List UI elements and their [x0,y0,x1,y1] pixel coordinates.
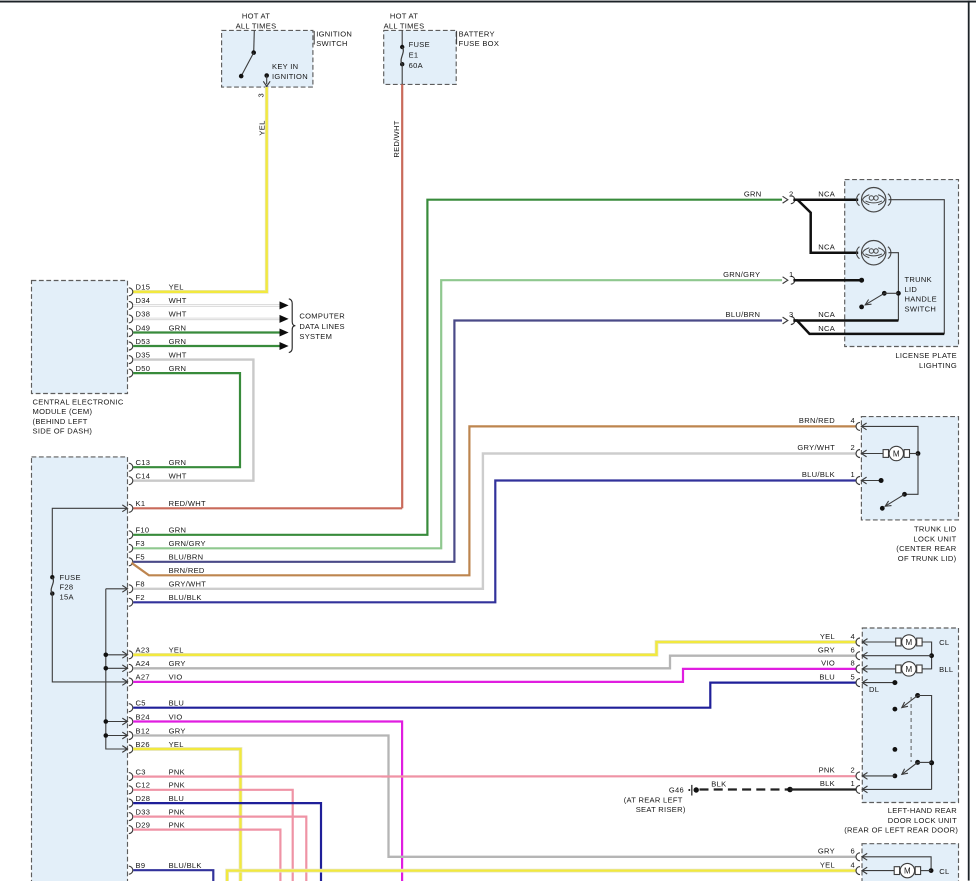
svg-text:K1: K1 [136,499,146,508]
svg-text:RED/WHT: RED/WHT [169,499,206,508]
svg-text:BRN/RED: BRN/RED [169,566,205,575]
svg-text:M: M [893,449,900,458]
license internal pin3 wires [793,319,898,322]
svg-text:VIO: VIO [169,712,183,721]
CEM pin C5 [129,704,133,712]
svg-text:SWITCH: SWITCH [905,304,937,313]
svg-text:(BEHIND LEFT: (BEHIND LEFT [33,417,88,426]
fuse E1 60A [401,30,403,47]
svg-text:IGNITION: IGNITION [272,72,308,81]
door pin1 internal wire [862,788,931,790]
CEM pin C12 [129,786,133,794]
wire D38 WHT data line [133,318,280,320]
svg-text:C5: C5 [136,699,146,708]
lamp1 return wire [889,200,945,334]
svg-text:A24: A24 [136,659,150,668]
svg-text:YEL: YEL [169,283,184,292]
CEM pin B26 [129,745,133,753]
RH door pin 4 connector [856,867,860,875]
svg-text:B12: B12 [136,726,150,735]
svg-text:GRN: GRN [169,458,187,467]
ignition switch box [222,30,313,87]
wire C3 PNK to door pin2 [133,775,856,778]
CEM pin D50 [129,369,133,377]
CEM pin D35 [129,356,133,364]
svg-text:BATTERY: BATTERY [459,29,495,38]
svg-text:BLU/BLK: BLU/BLK [802,470,835,479]
svg-text:1: 1 [789,270,794,279]
svg-text:BLU: BLU [169,699,185,708]
svg-text:IGNITION: IGNITION [316,29,352,38]
wire D29 PNK down offpage [133,830,280,881]
CEM pin D34 [129,301,133,309]
RH door pin 6 connector [856,853,860,861]
lamp2 return wire [889,253,899,321]
svg-text:D35: D35 [136,350,151,359]
svg-text:15A: 15A [60,592,75,601]
svg-text:F3: F3 [136,539,145,548]
license pin 2 connector [783,196,788,203]
svg-text:PNK: PNK [169,820,185,829]
CEM pin F8 [129,585,133,593]
mechanical link (dashed) [910,697,912,762]
wire B12 GRY to RH door pin6 [133,736,856,857]
svg-text:BLU/BRN: BLU/BRN [169,553,204,562]
svg-text:LID: LID [905,285,918,294]
svg-text:GRY/WHT: GRY/WHT [169,580,207,589]
svg-text:GRY: GRY [818,847,835,856]
trunk pin 4 connector [856,422,860,430]
svg-text:FUSE: FUSE [60,573,81,582]
CEM pin F10 [129,531,133,539]
right-hand rear door lock unit box (cut off) [862,844,959,881]
wire F8 GRY/WHT to trunk pin2 [133,454,856,589]
CEM pin B9 [129,866,133,874]
door pin 5 connector [856,679,860,687]
license internal black wiring pin2 [793,198,858,201]
door motor CL [862,641,895,643]
trunk lid lock unit box [861,417,958,520]
svg-text:SIDE OF DASH): SIDE OF DASH) [33,427,93,436]
svg-text:HOT AT: HOT AT [242,12,270,21]
svg-text:VIO: VIO [169,673,183,682]
svg-text:LICENSE PLATE: LICENSE PLATE [895,351,957,360]
svg-text:GRN: GRN [744,189,762,198]
CEM internal wire fuse to A27 [52,594,127,682]
wire C12 PNK down offpage [133,790,293,881]
svg-text:PNK: PNK [169,807,185,816]
svg-text:2: 2 [789,189,794,198]
left-hand rear door lock unit box [862,628,958,803]
CEM pin D15 [129,288,133,296]
svg-text:GRY/WHT: GRY/WHT [797,443,835,452]
svg-text:A27: A27 [136,673,150,682]
svg-text:DATA LINES: DATA LINES [299,322,345,331]
svg-text:SEAT RISER): SEAT RISER) [636,805,686,814]
trunk internal pin4 wire [861,426,918,453]
svg-text:MODULE (CEM): MODULE (CEM) [33,407,93,416]
wire F5 BLU/BRN to license pin3 [133,321,782,562]
data line arrow D53 [280,342,289,350]
svg-text:1: 1 [851,470,856,479]
CEM pin B24 [129,718,133,726]
svg-text:3: 3 [789,310,794,319]
page frame right border [968,1,970,881]
middle contact dot [893,747,898,752]
wire BRN/RED to trunk pin4 [132,426,857,575]
svg-text:GRN/GRY: GRN/GRY [169,539,206,548]
svg-text:C14: C14 [136,472,151,481]
svg-text:BLU: BLU [169,794,185,803]
svg-text:PNK: PNK [169,781,185,790]
data line arrow D34 [280,301,289,309]
svg-text:M: M [904,867,911,876]
battery fuse box [384,30,457,84]
svg-text:VIO: VIO [821,659,835,668]
CEM internal bus F8/A23/A24/B24/B12/B26 [106,588,128,590]
CEM pin F3 [129,544,133,552]
svg-text:D29: D29 [136,820,151,829]
svg-text:TRUNK: TRUNK [905,275,933,284]
license pin 3 connector [783,317,788,324]
svg-text:CL: CL [939,867,949,876]
svg-text:M: M [906,665,913,674]
svg-text:KEY IN: KEY IN [272,62,298,71]
svg-text:BLK: BLK [820,779,835,788]
svg-text:OF TRUNK LID): OF TRUNK LID) [898,554,957,563]
svg-text:ALL TIMES: ALL TIMES [384,21,425,30]
door pin 2 connector [856,772,860,780]
computer data lines brace [289,299,296,353]
svg-text:SYSTEM: SYSTEM [299,332,332,341]
wire YEL ignition to D15 [133,87,267,292]
door lock switch lower [915,760,920,765]
door pin 1 connector [856,785,860,793]
RH door motor CL [862,870,894,872]
wire B24 VIO down offpage [133,722,402,881]
svg-text:CL: CL [939,638,949,647]
svg-text:SWITCH: SWITCH [316,39,348,48]
battery fuse box label leader [456,31,458,45]
svg-text:E1: E1 [409,50,419,59]
license pin 1 connector [783,277,788,284]
svg-text:DL: DL [869,685,879,694]
data line arrow D38 [280,315,289,323]
CEM pin D33 [129,813,133,821]
svg-text:GRN: GRN [169,323,187,332]
svg-text:D49: D49 [136,323,151,332]
trunk internal switch [905,454,919,495]
wire RED/WHT battery to K1 [401,84,403,508]
wire F10 GRN to license pin2 [133,200,782,535]
CEM pin D38 [129,315,133,323]
svg-text:WHT: WHT [169,472,187,481]
trunk lid handle switch [882,291,887,296]
svg-text:D50: D50 [136,364,151,373]
svg-text:G46: G46 [669,786,684,795]
svg-text:GRN: GRN [169,526,187,535]
svg-text:BRN/RED: BRN/RED [799,416,835,425]
CEM pin C13 [129,463,133,471]
central electronic module (CEM) box upper [32,281,128,394]
svg-text:6: 6 [851,646,856,655]
CEM pin F5 [129,558,133,566]
svg-text:LIGHTING: LIGHTING [919,361,957,370]
wire D49 GRN data line [133,331,280,333]
CEM pin C3 [129,773,133,781]
wire D50 GRN loop to C13 [133,373,240,467]
license internal pin1 wire [793,279,861,282]
svg-text:GRY: GRY [169,726,186,735]
svg-text:(REAR OF LEFT REAR DOOR): (REAR OF LEFT REAR DOOR) [844,826,958,835]
svg-text:4: 4 [851,632,856,641]
CEM pin B12 [129,732,133,740]
svg-text:5: 5 [851,672,856,681]
CEM pin D28 [129,799,133,807]
svg-text:PNK: PNK [169,767,185,776]
svg-text:CENTRAL ELECTRONIC: CENTRAL ELECTRONIC [33,398,124,407]
CEM pin D49 [129,329,133,337]
CEM pin F2 [129,598,133,606]
svg-text:RED/WHT: RED/WHT [392,120,401,157]
svg-text:HOT AT: HOT AT [390,12,418,21]
svg-text:F28: F28 [60,583,74,592]
CEM pin D29 [129,826,133,834]
svg-text:FUSE BOX: FUSE BOX [459,39,500,48]
svg-text:C12: C12 [136,781,151,790]
svg-text:BLL: BLL [939,665,953,674]
svg-text:D34: D34 [136,296,151,305]
svg-text:8: 8 [851,659,856,668]
svg-text:ALL TIMES: ALL TIMES [236,21,277,30]
RH door internal pin6 wire [862,857,931,871]
svg-text:NCA: NCA [818,310,836,319]
svg-text:COMPUTER: COMPUTER [299,312,345,321]
license plate lighting box [845,180,959,347]
svg-text:D28: D28 [136,794,151,803]
door lock switch upper [915,693,920,698]
wire B9 BLU/BLK down offpage [133,870,213,881]
data line arrow D49 [280,329,289,337]
svg-text:F2: F2 [136,593,145,602]
wire C5 BLU to door pin5 [133,683,856,708]
svg-text:YEL: YEL [820,632,835,641]
svg-text:6: 6 [851,847,856,856]
wire F2 BLU/BLK to trunk pin1 [133,481,856,603]
wire YEL RH door pin4 offpage [227,871,857,881]
page frame top border [0,1,976,3]
BLK ground wire (dashed) [700,788,791,790]
door pin 4 connector [856,638,860,646]
ignition switch label leader [313,31,315,45]
svg-text:BLK: BLK [711,780,726,789]
svg-text:GRY: GRY [169,659,186,668]
svg-text:2: 2 [851,443,856,452]
svg-text:D33: D33 [136,807,151,816]
wire A24 GRY to door pin6 [133,656,856,669]
svg-text:B24: B24 [136,712,150,721]
svg-text:C3: C3 [136,767,146,776]
wire F3 GRN/GRY to license pin1 [133,280,782,548]
wire D34 WHT data line [133,304,280,306]
svg-text:WHT: WHT [169,350,187,359]
wire A27 VIO to door pin8 [133,669,856,682]
svg-text:3: 3 [257,93,266,98]
svg-text:YEL: YEL [257,120,266,135]
wire D33 PNK down offpage [133,817,306,881]
svg-text:WHT: WHT [169,296,187,305]
wire D28 BLU down offpage [133,803,321,881]
license lamp 2 [862,241,886,265]
door pin 6 connector [856,652,860,660]
svg-text:WHT: WHT [169,310,187,319]
svg-text:HANDLE: HANDLE [905,295,937,304]
central electronic module (CEM) box lower [32,457,128,881]
svg-text:4: 4 [851,416,856,425]
svg-text:B9: B9 [136,861,146,870]
svg-text:BLU: BLU [819,672,835,681]
svg-text:F8: F8 [136,580,145,589]
svg-text:60A: 60A [409,61,424,70]
wire B26 YEL down offpage [133,749,240,881]
BLK wire to door pin1 [790,788,857,790]
wire D53 GRN data line [133,345,280,347]
wire RED/WHT to K1 pin [133,507,402,509]
svg-text:NCA: NCA [818,242,836,251]
trunk pin 1 connector [856,477,860,485]
svg-text:C13: C13 [136,458,151,467]
svg-text:TRUNK LID: TRUNK LID [914,525,957,534]
door motor BLL [862,668,895,670]
svg-text:D53: D53 [136,337,151,346]
svg-text:D38: D38 [136,310,151,319]
door pin 8 connector [856,665,860,673]
svg-text:D15: D15 [136,283,151,292]
CEM pin A23 [129,651,133,659]
svg-text:PNK: PNK [819,766,835,775]
svg-text:BLU/BRN: BLU/BRN [725,310,760,319]
CEM pin A24 [129,664,133,672]
CEM pin K1 [129,504,133,512]
ignition switch contacts [253,30,256,52]
svg-text:GRN: GRN [169,337,187,346]
svg-text:NCA: NCA [818,189,836,198]
svg-text:DOOR LOCK UNIT: DOOR LOCK UNIT [888,816,957,825]
svg-text:F10: F10 [136,526,150,535]
svg-text:4: 4 [851,860,856,869]
svg-text:GRN: GRN [169,364,187,373]
trunk lock motor [861,453,883,455]
svg-text:GRY: GRY [818,646,835,655]
CEM pin A27 [129,678,133,686]
wire A23 YEL to door pin4 [133,642,856,655]
svg-text:LEFT-HAND REAR: LEFT-HAND REAR [888,806,957,815]
svg-text:BLU/BLK: BLU/BLK [169,593,202,602]
svg-text:M: M [906,638,913,647]
door DL switch contact [862,682,895,684]
svg-text:NCA: NCA [818,324,836,333]
wire D35 WHT loop to C14 [133,360,253,481]
svg-text:LOCK UNIT: LOCK UNIT [914,534,957,543]
CEM internal wire K1 to fuse F28 [52,508,127,577]
license lamp 1 [862,188,886,212]
svg-text:YEL: YEL [820,860,835,869]
fuse F28 15A [50,575,54,579]
svg-text:GRN/GRY: GRN/GRY [723,270,760,279]
CEM pin D53 [129,342,133,350]
svg-text:F5: F5 [136,553,145,562]
svg-text:(AT REAR LEFT: (AT REAR LEFT [624,795,683,804]
svg-text:1: 1 [851,779,856,788]
svg-text:BLU/BLK: BLU/BLK [169,861,202,870]
svg-text:2: 2 [851,766,856,775]
CEM pin C14 [129,477,133,485]
trunk pin 2 connector [856,450,860,458]
svg-text:FUSE: FUSE [409,40,430,49]
svg-text:(CENTER REAR: (CENTER REAR [896,544,956,553]
